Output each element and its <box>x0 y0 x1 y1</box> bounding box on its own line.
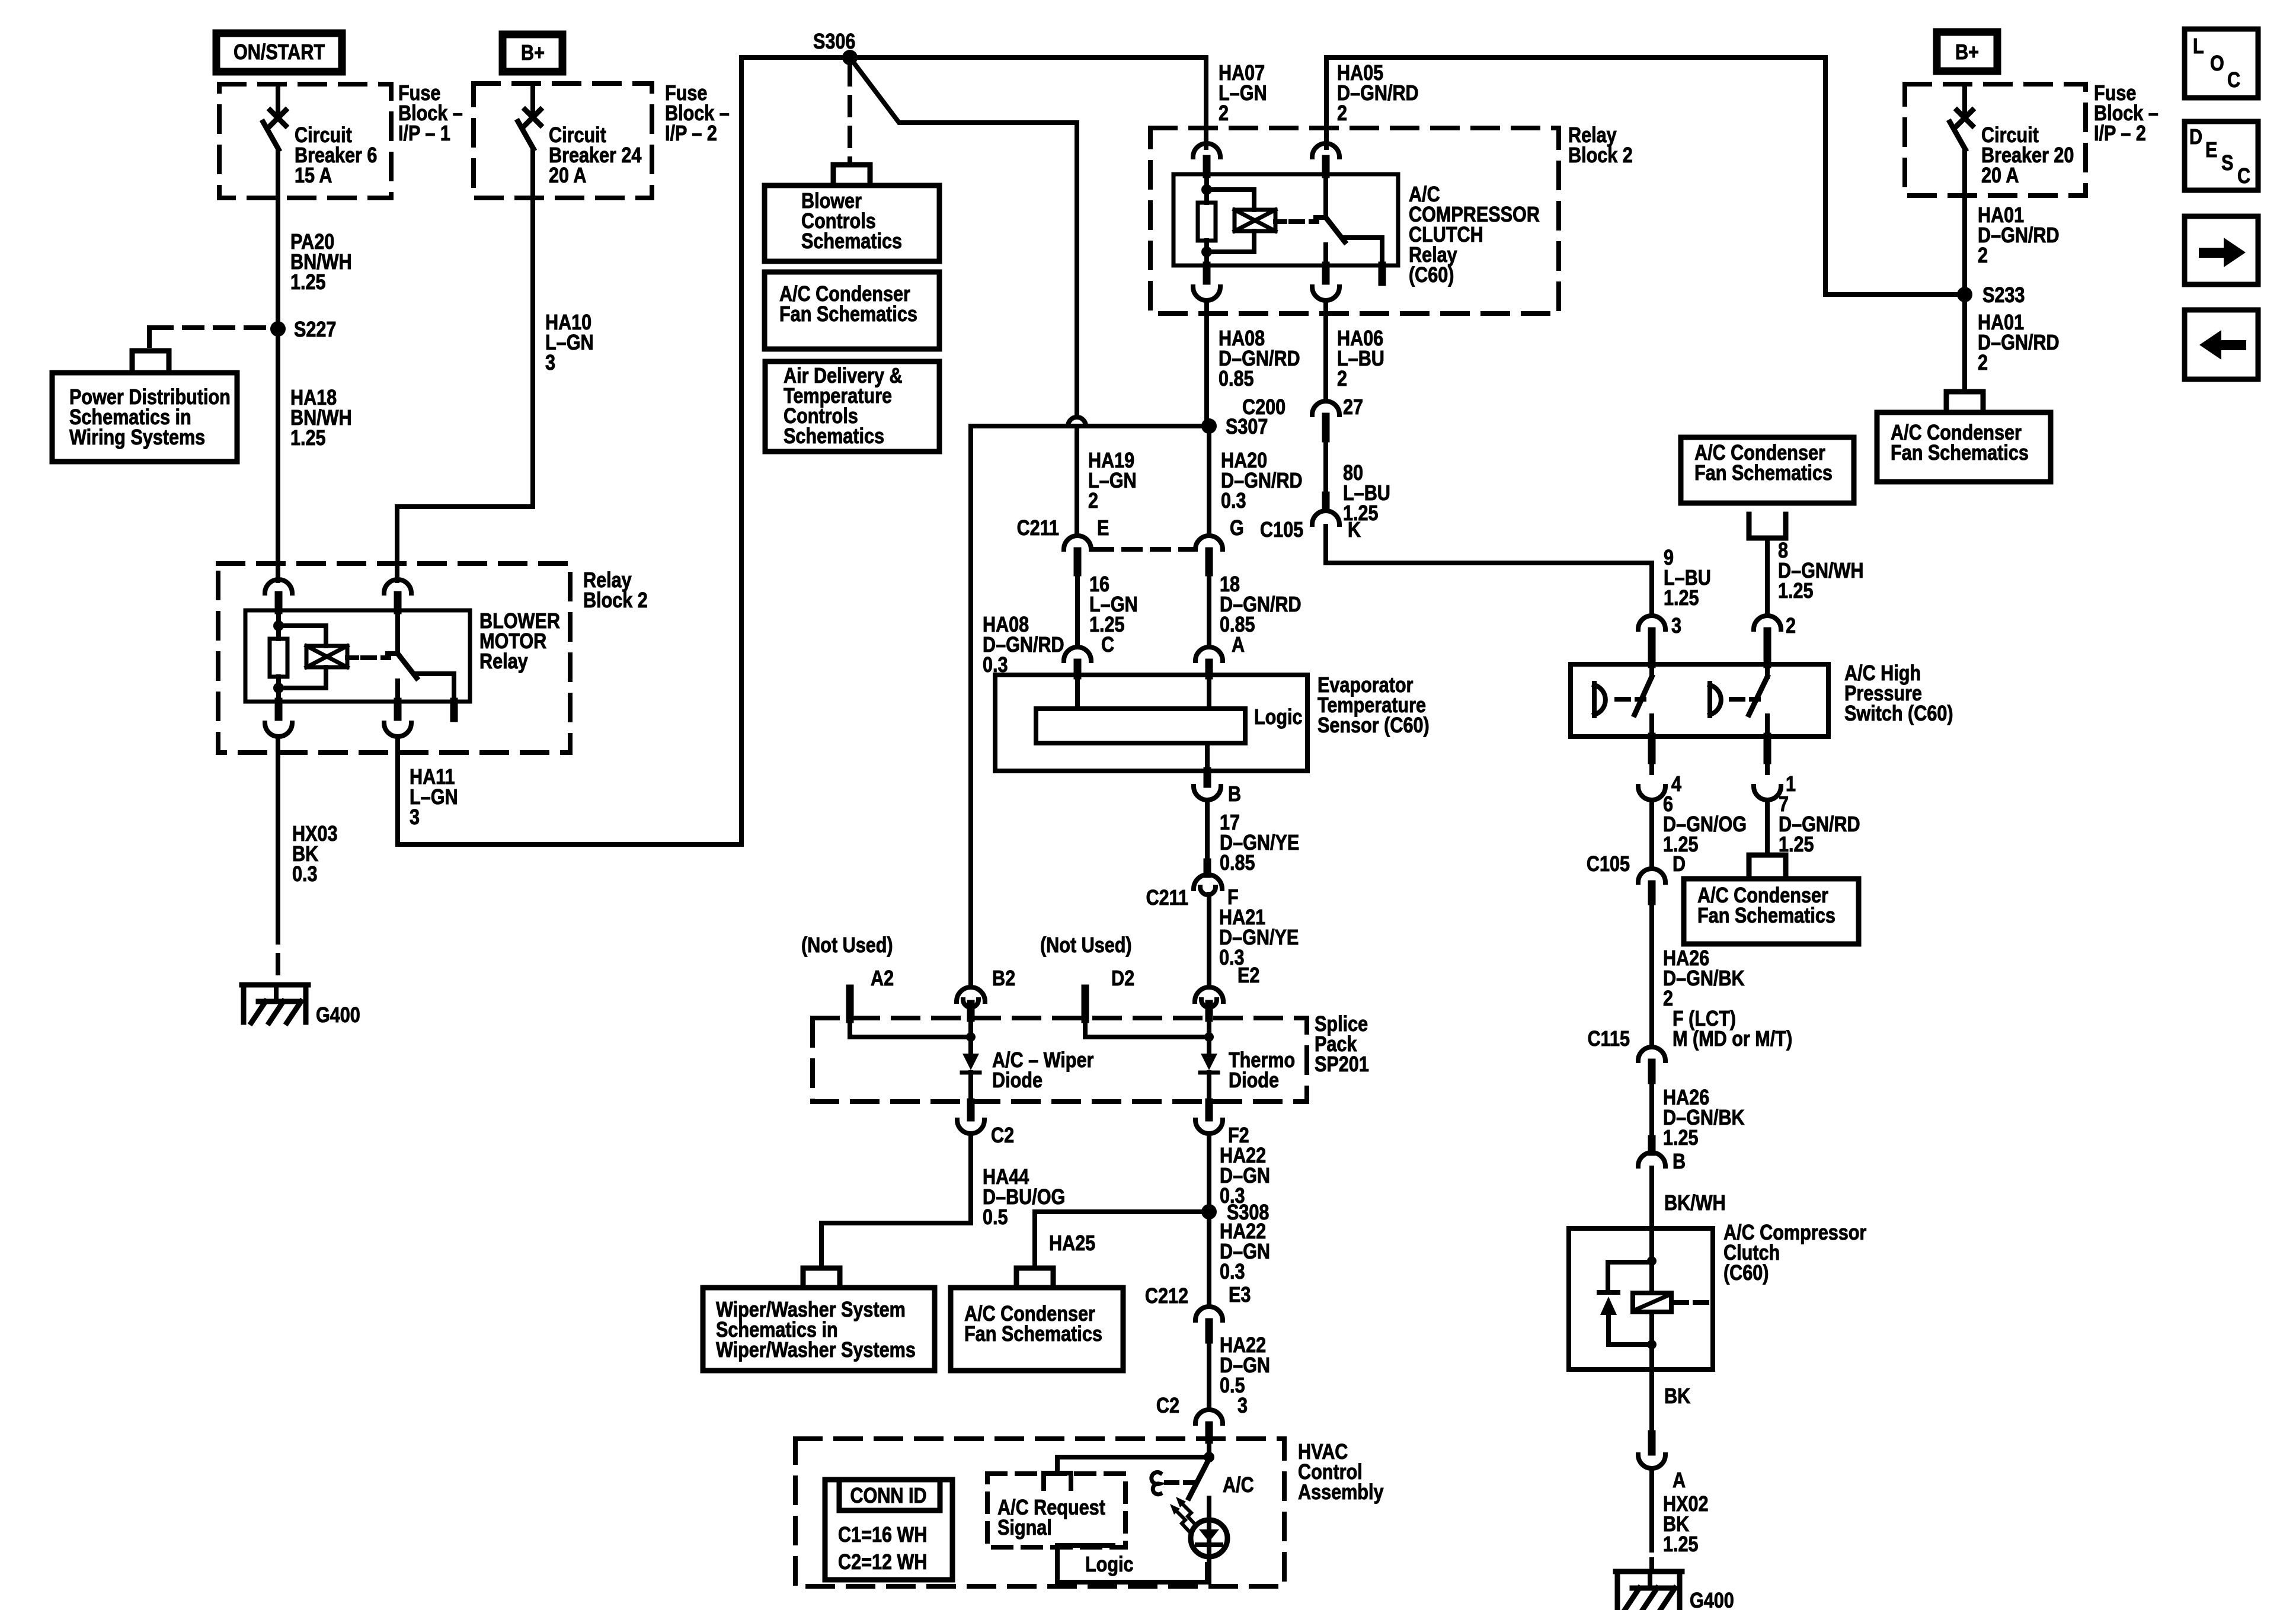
circuit breaker CB6 symbol <box>263 84 286 149</box>
box A/C Compressor Clutch <box>1569 1228 1713 1369</box>
bracket to Blower Controls box <box>833 165 870 183</box>
svg-text:Fan Schematics: Fan Schematics <box>779 303 917 327</box>
connector C211 pin F <box>1146 875 1239 910</box>
svg-text:A/C: A/C <box>1223 1474 1254 1497</box>
wire HA22 0.3 lower <box>1207 1212 1211 1307</box>
wire 80 L-BU to C105 K <box>1312 438 1339 524</box>
svg-text:Wiper/Washer Systems: Wiper/Washer Systems <box>716 1339 916 1362</box>
label F2 HA22 D-GN 0.3 <box>1220 1144 1270 1208</box>
wire HA26 upper <box>1649 901 1654 1047</box>
svg-text:C: C <box>2237 165 2250 188</box>
svg-text:Diode: Diode <box>992 1069 1043 1093</box>
clutch input node <box>1647 1228 1657 1266</box>
wire HA08 0.3 vertical <box>968 426 973 987</box>
fuse block I/P-2 right (dashed) <box>1905 84 2086 196</box>
wire HA44 to wiper schematics <box>821 1134 971 1267</box>
label Circuit Breaker 20 20 A <box>1981 124 2074 188</box>
svg-text:C105: C105 <box>1260 518 1303 542</box>
svg-text:ON/START: ON/START <box>234 41 325 65</box>
svg-text:S233: S233 <box>1982 284 2025 308</box>
svg-text:2: 2 <box>1337 102 1347 126</box>
label HA18 BN/WH 1.25 <box>290 386 352 450</box>
wire HA06 to C200 <box>1323 300 1328 401</box>
relay block 2 (dashed, blower) <box>218 564 570 753</box>
label HA10 L-GN 3 <box>545 311 594 375</box>
svg-text:S307: S307 <box>1226 415 1268 439</box>
label A/C High Pressure Switch (C60) <box>1844 662 1953 726</box>
splice S227 <box>270 318 336 342</box>
wire PA20 vertical <box>276 149 280 581</box>
relay A/C COMPRESSOR CLUTCH internals <box>1173 143 1398 300</box>
svg-text:C2=12 WH: C2=12 WH <box>838 1551 927 1574</box>
fuse block I/P-2 (dashed) <box>474 84 652 198</box>
svg-text:K: K <box>1348 518 1361 542</box>
wire HA25 branch <box>1035 1212 1209 1267</box>
label HA01 D-GN/RD 2 (lower) <box>1978 311 2060 375</box>
svg-text:Fan Schematics: Fan Schematics <box>1694 462 1833 485</box>
svg-text:L: L <box>2193 35 2204 59</box>
label Fuse Block - I/P - 2 (right) <box>2094 82 2159 146</box>
svg-text:0.3: 0.3 <box>1220 1260 1245 1284</box>
svg-text:C211: C211 <box>1146 886 1188 910</box>
connector C212 pin E3 <box>1145 1283 1251 1340</box>
dashed link C211 E-G <box>1095 547 1192 552</box>
svg-text:S306: S306 <box>813 30 855 54</box>
A/C-Wiper diode <box>962 1037 980 1102</box>
svg-text:1.25: 1.25 <box>290 271 326 295</box>
label 8 D-GN/WH 1.25 <box>1778 539 1863 603</box>
label Evaporator Temperature Sensor (C60) <box>1318 674 1430 738</box>
wire HA22 0.3 upper <box>1207 1134 1211 1212</box>
splice wire A2-B2 <box>850 1018 976 1042</box>
svg-text:Relay: Relay <box>479 650 528 674</box>
svg-text:1.25: 1.25 <box>1664 587 1699 610</box>
power feed box B+ (left) <box>503 34 562 72</box>
svg-text:D: D <box>2189 126 2202 149</box>
svg-text:E3: E3 <box>1229 1283 1251 1307</box>
CONN ID table <box>825 1480 952 1580</box>
svg-text:C211: C211 <box>1017 517 1059 540</box>
svg-text:I/P – 1: I/P – 1 <box>398 122 450 146</box>
pin D2 stub <box>1085 967 1134 1019</box>
bracket to A/C Condenser Fan box (top right) <box>1946 392 1983 409</box>
box A/C Condenser Fan Schematics (mid right) <box>1681 437 1854 503</box>
label HA22 D-GN 0.5 3 <box>1220 1334 1270 1418</box>
box Power Distribution Schematics in Wiring Systems <box>52 373 237 462</box>
sensor internal wires <box>1077 676 1209 771</box>
A/C switch blade <box>1189 1459 1209 1498</box>
svg-text:(C60): (C60) <box>1723 1262 1769 1285</box>
svg-text:Logic: Logic <box>1085 1553 1134 1577</box>
switch pin 3 entry <box>1638 614 1681 664</box>
svg-text:Fan Schematics: Fan Schematics <box>1697 904 1835 928</box>
switch pin 2 entry <box>1754 614 1796 664</box>
clutch coil <box>1633 1261 1710 1369</box>
wire to A/C request signal <box>1044 1457 1209 1489</box>
label BLOWER MOTOR Relay <box>479 610 560 674</box>
svg-text:S: S <box>2221 152 2233 175</box>
pin C2 exit <box>957 1102 1014 1148</box>
svg-text:3: 3 <box>1671 614 1681 638</box>
svg-text:SP201: SP201 <box>1315 1053 1369 1077</box>
wire HA10 to blower relay <box>397 149 533 581</box>
connector C2 into HVAC <box>1156 1394 1223 1440</box>
sensor pin B exit <box>1194 771 1241 806</box>
relay BLOWER MOTOR internals <box>245 580 470 737</box>
relay block 2 (dashed, A/C) <box>1150 128 1559 313</box>
box A/C Condenser Fan Schematics (top right) <box>1877 412 2051 482</box>
wire HX02 BK <box>1649 1468 1654 1571</box>
svg-text:D–GN/RD: D–GN/RD <box>1337 82 1419 105</box>
svg-text:A2: A2 <box>871 967 894 991</box>
splice wire D2-E2 <box>1085 1018 1214 1042</box>
label C105 K <box>1260 518 1361 542</box>
svg-text:I/P – 2: I/P – 2 <box>2094 122 2146 146</box>
svg-text:D–GN/RD: D–GN/RD <box>1978 224 2060 248</box>
svg-text:Signal: Signal <box>997 1516 1052 1540</box>
label HA06 L-BU 2 <box>1337 327 1384 391</box>
wire BK <box>1652 1369 1690 1434</box>
svg-text:HA25: HA25 <box>1049 1232 1095 1256</box>
label A/C <box>1223 1474 1254 1497</box>
svg-text:Schematics: Schematics <box>801 230 902 254</box>
connector B <box>1638 1139 1665 1166</box>
sensor pin A entry <box>1195 647 1223 676</box>
svg-text:B: B <box>1228 783 1241 806</box>
connector C211 pin E <box>1064 536 1091 572</box>
svg-text:2: 2 <box>1978 244 1988 268</box>
svg-text:D–GN/BK: D–GN/BK <box>1663 967 1745 991</box>
power feed box B+ (right) <box>1937 32 1997 71</box>
labels (Not Used) <box>801 934 1132 958</box>
wire 16 L-GN to sensor C <box>1075 572 1080 647</box>
svg-text:BK/WH: BK/WH <box>1664 1192 1726 1215</box>
label Relay Block 2 (blower) <box>583 569 648 613</box>
svg-text:(C60): (C60) <box>1409 264 1454 287</box>
svg-text:2: 2 <box>1663 987 1673 1011</box>
svg-text:Block 2: Block 2 <box>583 589 648 613</box>
label HVAC Control Assembly <box>1298 1441 1384 1505</box>
box A/C Condenser Fan Schematics (bottom) <box>951 1288 1123 1371</box>
splice S306 <box>813 30 858 65</box>
legend box arrow left <box>2185 310 2258 379</box>
svg-text:I/P – 2: I/P – 2 <box>665 122 717 146</box>
svg-text:0.85: 0.85 <box>1220 852 1255 875</box>
label HA19 L-GN 2 <box>1088 449 1137 513</box>
wire HA20 to C211 G <box>1207 426 1211 536</box>
svg-text:A: A <box>1673 1469 1686 1493</box>
bracket to Power Distribution box <box>132 351 169 369</box>
label Fuse Block - I/P - 1 <box>398 82 463 146</box>
svg-text:B+: B+ <box>521 41 545 65</box>
wire S306 diagonal to HA19 <box>850 57 1077 417</box>
connector C115 <box>1588 1028 1665 1080</box>
dashed stub below S306 <box>848 66 852 161</box>
wire HA22 0.5 <box>1207 1340 1211 1410</box>
svg-text:27: 27 <box>1343 396 1363 420</box>
svg-text:3: 3 <box>545 351 555 375</box>
pressure actuator 1 <box>1594 683 1644 716</box>
label Thermo Diode <box>1229 1049 1295 1093</box>
wire 6 D-GN/OG <box>1649 800 1654 869</box>
wire S233 feed to relay <box>1825 57 1965 295</box>
svg-text:0.3: 0.3 <box>292 863 318 886</box>
label F (LCT) M (MD or M/T) <box>1673 1007 1792 1051</box>
wire 8 D-GN/WH <box>1765 538 1770 616</box>
svg-text:A: A <box>1232 633 1245 657</box>
svg-text:Logic: Logic <box>1254 706 1303 729</box>
svg-text:1.25: 1.25 <box>290 427 326 450</box>
svg-text:D2: D2 <box>1111 967 1134 991</box>
labels C211 E G <box>1017 517 1244 540</box>
svg-text:G400: G400 <box>1690 1589 1734 1610</box>
svg-text:C2: C2 <box>991 1124 1014 1148</box>
label HA44 D-BU/OG 0.5 <box>983 1166 1065 1230</box>
wire hop over S307 line <box>1068 417 1086 536</box>
splice S308 <box>1201 1201 1269 1225</box>
wire HA05 feed <box>1326 57 1825 148</box>
label HA07 L-GN 2 <box>1219 62 1267 126</box>
svg-text:E: E <box>1097 517 1109 540</box>
splice pack SP201 (dashed) <box>813 1018 1307 1102</box>
svg-text:3: 3 <box>1237 1394 1248 1418</box>
wire HA01 lower <box>1962 295 1967 391</box>
switch pin 1 exit <box>1754 737 1796 800</box>
wire 18 D-GN/RD to sensor A <box>1207 572 1211 647</box>
wire 17 D-GN/YE <box>1205 800 1210 874</box>
svg-text:B+: B+ <box>1955 41 1979 65</box>
connector C211 pin G <box>1195 536 1223 572</box>
svg-text:E: E <box>2205 139 2217 162</box>
bracket to A/C Condenser Fan box (bottom) <box>1016 1268 1053 1286</box>
wire 7 D-GN/RD <box>1765 800 1770 854</box>
pin A2 stub <box>850 967 894 1019</box>
wire HA26 lower <box>1649 1080 1654 1139</box>
bracket to Wiper/Washer box <box>803 1268 840 1286</box>
connector C105 pin D <box>1587 853 1686 901</box>
label HA22 D-GN 0.3 (below S308) <box>1220 1220 1270 1284</box>
svg-text:Schematics: Schematics <box>784 425 884 449</box>
svg-text:1.25: 1.25 <box>1778 580 1814 603</box>
connector C200 pin 27 <box>1242 396 1363 438</box>
svg-text:0.5: 0.5 <box>983 1206 1008 1230</box>
label HA21 D-GN/YE 0.3 <box>1219 906 1299 970</box>
label 80 L-BU 1.25 <box>1343 462 1390 526</box>
box Blower Controls Schematics <box>765 185 939 261</box>
svg-text:Assembly: Assembly <box>1298 1481 1384 1505</box>
box Evaporator Temperature Sensor <box>995 675 1307 771</box>
splice S307 <box>1201 415 1268 439</box>
svg-text:BK: BK <box>1664 1385 1690 1409</box>
svg-text:2: 2 <box>1088 489 1098 513</box>
splice S233 <box>1957 284 2025 308</box>
connector A <box>1638 1434 1686 1493</box>
wire HA01 upper <box>1962 149 1967 295</box>
pressure switch blade 1 <box>1635 664 1652 737</box>
pin E2 entry <box>1195 964 1259 1018</box>
pressure actuator 2 <box>1710 683 1758 716</box>
svg-text:E2: E2 <box>1237 964 1259 988</box>
label A/C - Wiper Diode <box>992 1049 1093 1093</box>
circuit breaker CB24 symbol <box>518 84 541 149</box>
svg-text:Block 2: Block 2 <box>1568 144 1633 168</box>
label Relay Block 2 (A/C) <box>1568 124 1633 168</box>
LED arrows <box>1170 1497 1195 1531</box>
svg-text:C: C <box>2227 69 2240 92</box>
svg-text:C: C <box>1101 633 1114 657</box>
svg-text:1.25: 1.25 <box>1663 1126 1699 1150</box>
label 16 L-GN 1.25 C <box>1089 573 1138 657</box>
svg-text:D: D <box>1673 853 1686 876</box>
svg-text:20 A: 20 A <box>549 164 586 188</box>
svg-text:G: G <box>1230 517 1244 540</box>
pin B2 entry <box>957 967 1015 1018</box>
dashed branch wire from S227 <box>149 328 264 350</box>
pressure switch blade 2 <box>1749 664 1767 737</box>
svg-text:0.85: 0.85 <box>1219 367 1254 391</box>
wire BK/WH <box>1652 1168 1726 1228</box>
wire HX03 vertical <box>276 737 280 979</box>
svg-text:C1=16 WH: C1=16 WH <box>838 1523 927 1547</box>
box A/C High Pressure Switch <box>1571 664 1828 737</box>
box A/C Condenser Fan Schematics (left column) <box>765 272 939 349</box>
bracket below mid-right box <box>1749 514 1786 538</box>
circuit breaker CB20 symbol <box>1950 84 1972 149</box>
svg-text:2: 2 <box>1337 367 1347 391</box>
label HA08 D-GN/RD 0.3 <box>983 613 1064 677</box>
svg-text:0.3: 0.3 <box>1221 489 1246 513</box>
label HA01 D-GN/RD 2 (upper) <box>1978 204 2060 268</box>
wire HA21 D-GN/YE <box>1207 894 1211 986</box>
svg-text:(Not Used): (Not Used) <box>1040 934 1132 958</box>
box Air Delivery and Temperature Controls Schematics <box>765 361 939 452</box>
pin F2 exit <box>1195 1102 1249 1148</box>
ground G400 (left) <box>242 985 360 1028</box>
label A/C COMPRESSOR CLUTCH Relay (C60) <box>1409 183 1540 287</box>
svg-text:2: 2 <box>1786 614 1796 638</box>
A/C Request Signal box (dashed) <box>987 1474 1125 1547</box>
label A/C Compressor Clutch (C60) <box>1723 1221 1866 1285</box>
svg-text:Switch (C60): Switch (C60) <box>1844 702 1953 726</box>
svg-text:B2: B2 <box>992 967 1015 991</box>
svg-text:15 A: 15 A <box>295 164 332 188</box>
svg-text:2: 2 <box>1219 102 1229 126</box>
svg-text:D–GN/RD: D–GN/RD <box>1978 331 2060 355</box>
svg-text:C2: C2 <box>1156 1394 1179 1418</box>
svg-text:Wiring Systems: Wiring Systems <box>69 426 205 450</box>
svg-text:Fan Schematics: Fan Schematics <box>964 1323 1102 1346</box>
label HA08 D-GN/RD 0.85 <box>1219 327 1300 391</box>
box Wiper/Washer System Schematics <box>703 1288 935 1371</box>
clutch suppression diode <box>1599 1262 1652 1345</box>
label HA26 D-GN/BK 1.25 B <box>1663 1086 1745 1174</box>
Thermo diode <box>1200 1037 1218 1102</box>
box A/C Condenser Fan Schematics (lower right) <box>1684 879 1859 944</box>
label Fuse Block - I/P - 2 <box>665 82 730 146</box>
label 18 D-GN/RD 0.85 A <box>1220 573 1302 657</box>
legend box arrow right <box>2185 216 2258 284</box>
power feed box ON/START <box>216 33 342 72</box>
legend box DESC <box>2185 121 2258 190</box>
switch linkage squiggle <box>1152 1473 1194 1494</box>
svg-text:M (MD or M/T): M (MD or M/T) <box>1673 1028 1792 1051</box>
label HX03 BK 0.3 <box>292 822 338 886</box>
svg-text:O: O <box>2210 52 2224 76</box>
svg-text:Sensor (C60): Sensor (C60) <box>1318 714 1430 738</box>
label Circuit Breaker 6 15 A <box>295 124 377 188</box>
label 7 D-GN/RD 1.25 <box>1779 793 1860 857</box>
LED indicator <box>1191 1498 1227 1582</box>
Logic bracket (HVAC) <box>1057 1545 1209 1582</box>
label Circuit Breaker 24 20 A <box>549 124 642 188</box>
svg-text:S227: S227 <box>294 318 336 342</box>
svg-text:G400: G400 <box>316 1004 360 1028</box>
label 6 D-GN/OG 1.25 <box>1663 793 1747 857</box>
label PA20 BN/WH 1.25 <box>290 231 352 295</box>
svg-text:1.25: 1.25 <box>1663 1533 1699 1557</box>
sensor pin C entry <box>1064 647 1091 676</box>
fuse block I/P-1 (dashed) <box>219 84 391 198</box>
ground G400 (right) <box>1616 1571 1734 1610</box>
label Splice Pack SP201 <box>1315 1013 1369 1077</box>
svg-text:Diode: Diode <box>1229 1069 1279 1093</box>
label HA26 D-GN/BK 2 <box>1663 947 1745 1011</box>
HVAC Control Assembly (dashed) <box>795 1439 1284 1586</box>
svg-text:C105: C105 <box>1587 853 1630 876</box>
label 9 L-BU 1.25 <box>1664 546 1711 610</box>
wire HA08 0.85 to S307 <box>1204 300 1209 426</box>
label 17 D-GN/YE 0.85 <box>1220 811 1299 875</box>
svg-text:B: B <box>1673 1150 1686 1174</box>
svg-text:C212: C212 <box>1145 1285 1188 1308</box>
legend box LOC <box>2185 29 2258 98</box>
label HA20 D-GN/RD 0.3 <box>1221 449 1303 513</box>
wire S307 to HA08 corner <box>971 424 1209 428</box>
bracket to A/C Condenser Fan box (lower right) <box>1749 855 1786 877</box>
svg-text:CONN ID: CONN ID <box>850 1484 926 1508</box>
svg-text:Fan Schematics: Fan Schematics <box>1891 441 2029 465</box>
label HX02 BK 1.25 <box>1663 1493 1709 1557</box>
svg-text:2: 2 <box>1978 351 1988 375</box>
label HA05 D-GN/RD 2 <box>1337 62 1419 126</box>
svg-text:20 A: 20 A <box>1981 164 2019 188</box>
wire into HVAC + node <box>1204 1440 1214 1462</box>
switch pin 4 exit <box>1638 737 1681 800</box>
wire K to pressure switch <box>1326 526 1652 616</box>
sensor Logic box <box>1036 706 1303 743</box>
svg-text:3: 3 <box>410 806 420 830</box>
label HA11 L-GN 3 <box>410 766 458 830</box>
wire S306 to HA07 corner <box>850 57 1206 148</box>
svg-text:C115: C115 <box>1588 1028 1630 1051</box>
wire HA11 loop to S306 <box>398 57 850 844</box>
svg-text:(Not Used): (Not Used) <box>801 934 893 958</box>
